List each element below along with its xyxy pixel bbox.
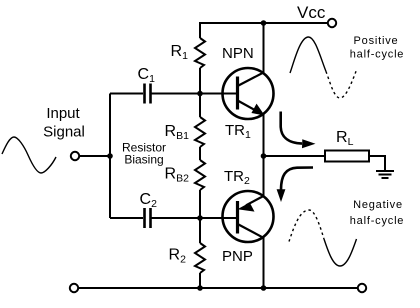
svg-text:NPN: NPN — [222, 45, 254, 62]
node base2 junction — [197, 215, 203, 221]
negative half-cycle sine — [289, 210, 324, 242]
ground-left terminal — [70, 284, 78, 292]
resistor RB1 — [195, 117, 205, 147]
svg-text:Signal: Signal — [43, 124, 85, 141]
wire RB2 bottom lead — [199, 190, 201, 218]
resistor RB2 — [195, 160, 205, 190]
wire TR1 emitter to output — [263, 114, 265, 156]
bottom rail — [79, 287, 358, 289]
svg-text:Biasing: Biasing — [124, 153, 163, 167]
wire R1 bottom lead — [199, 68, 201, 94]
wire RL to ground — [369, 156, 385, 170]
output terminal — [358, 284, 366, 292]
svg-text:Input: Input — [46, 105, 80, 122]
arrow negative current — [281, 168, 313, 191]
positive half-cycle sine — [290, 37, 326, 73]
svg-text:Negative: Negative — [353, 199, 403, 211]
wire R2 bottom lead — [199, 273, 201, 288]
wire TR2 collector to rail — [263, 238, 265, 289]
wire input lead — [80, 155, 111, 157]
wire left coupling vertical — [109, 94, 111, 219]
wire R2 top lead — [199, 218, 201, 243]
transistor TR1 (NPN) — [223, 68, 274, 119]
input sine wave — [2, 137, 56, 173]
node input junction — [107, 153, 113, 159]
wire RB1 top lead — [199, 94, 201, 118]
resistor R2 — [195, 243, 205, 273]
wire base2 horizontal — [110, 217, 237, 219]
svg-text:PNP: PNP — [222, 248, 253, 265]
wire output node vertical — [263, 156, 265, 196]
node top junction — [261, 20, 267, 26]
input terminal — [71, 152, 79, 160]
node bottom junction R2 — [197, 285, 203, 291]
node base1 junction — [197, 91, 203, 97]
svg-text:half-cycle: half-cycle — [350, 215, 404, 227]
svg-text:half-cycle: half-cycle — [350, 49, 404, 61]
capacitor C2 — [145, 208, 151, 228]
ground — [376, 171, 394, 178]
wire R1 top lead — [199, 22, 201, 38]
wire output to RL — [264, 155, 326, 157]
svg-text:Vcc: Vcc — [297, 3, 326, 22]
wire top rail Vcc — [200, 22, 328, 24]
wire base1 horizontal — [110, 93, 237, 95]
arrow positive current — [281, 112, 302, 144]
wire TR1 collector — [263, 23, 265, 73]
resistor R1 — [195, 38, 205, 68]
resistor RL (box) — [325, 151, 369, 162]
capacitor C1 — [145, 84, 151, 104]
node bottom junction TR2 — [261, 285, 267, 291]
node output junction — [261, 153, 267, 159]
svg-text:Positive: Positive — [354, 35, 399, 47]
transistor TR2 (PNP) — [223, 191, 274, 242]
wire RB mid lead — [199, 147, 201, 160]
Vcc terminal — [328, 19, 336, 27]
